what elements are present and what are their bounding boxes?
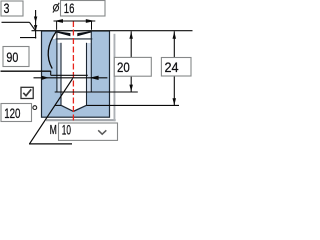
svg-text:3: 3: [4, 0, 10, 16]
svg-text:M: M: [50, 123, 57, 137]
svg-text:16: 16: [64, 0, 75, 16]
svg-text:90: 90: [6, 49, 18, 65]
svg-text:10: 10: [62, 122, 71, 138]
svg-text:24: 24: [165, 59, 179, 75]
svg-text:20: 20: [117, 59, 130, 75]
svg-text:120: 120: [4, 105, 20, 121]
